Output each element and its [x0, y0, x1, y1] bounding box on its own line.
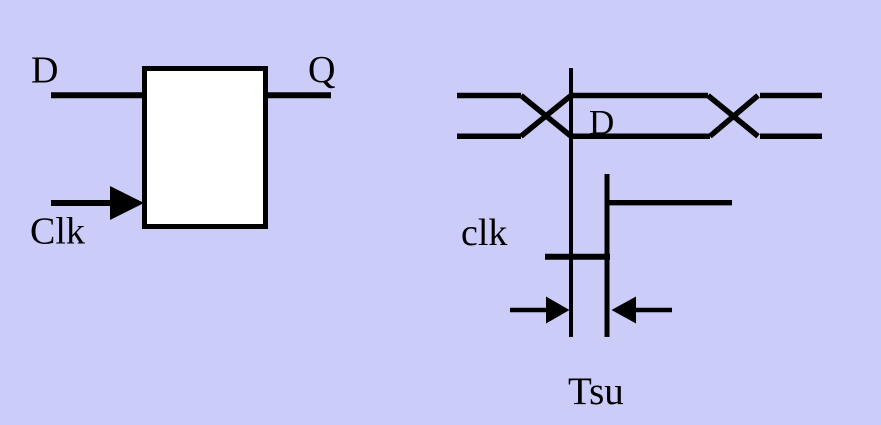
- right setup arrowhead: [612, 297, 637, 324]
- clock rising edge vertical line: [605, 174, 610, 337]
- data bus top rail middle segment: [571, 93, 708, 99]
- svg-text:D: D: [589, 103, 614, 142]
- label Clk: [30, 211, 85, 253]
- left setup arrowhead: [546, 297, 570, 324]
- label D input: [31, 50, 58, 92]
- data bus bottom rail middle segment: [571, 133, 710, 139]
- left setup arrow shaft: [510, 308, 550, 313]
- svg-text:Tsu: Tsu: [568, 370, 624, 413]
- data bus top rail right segment: [760, 93, 822, 99]
- vertical marker line at data transition: [569, 68, 573, 337]
- flip-flop box U1: [145, 69, 266, 227]
- label D data value: [589, 103, 614, 142]
- clock high level line: [605, 200, 733, 205]
- svg-text:clk: clk: [461, 212, 507, 254]
- clock low level line: [545, 254, 610, 260]
- svg-text:D: D: [31, 50, 58, 92]
- data bus top rail left segment: [457, 93, 521, 99]
- right crossover X rising diagonal: [710, 96, 758, 137]
- label clk: [461, 212, 507, 254]
- data bus bottom rail right segment: [760, 133, 822, 139]
- wire Clk input: [51, 200, 116, 206]
- wire D input: [51, 92, 142, 98]
- clock arrowhead into box: [110, 186, 144, 220]
- left crossover X falling diagonal: [521, 96, 571, 137]
- right setup arrow shaft: [634, 308, 672, 313]
- wire Q output: [268, 92, 331, 98]
- data bus bottom rail left segment: [457, 133, 521, 139]
- left crossover X rising diagonal: [521, 96, 571, 137]
- svg-text:Clk: Clk: [30, 211, 85, 253]
- right crossover X falling diagonal: [708, 96, 758, 137]
- label Q output: [308, 49, 335, 91]
- label Tsu: [568, 370, 624, 413]
- svg-text:Q: Q: [308, 49, 335, 91]
